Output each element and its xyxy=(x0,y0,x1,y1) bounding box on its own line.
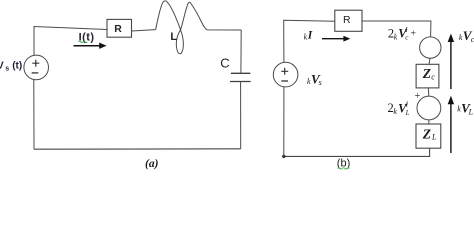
green squiggle under I( xyxy=(79,41,88,42)
minus sign xyxy=(281,80,288,82)
svg-text:(t): (t) xyxy=(12,61,22,72)
wire capacitor to bottom-right corner xyxy=(240,82,242,149)
svg-text:L: L xyxy=(170,31,177,43)
wire R box to top-right corner, down to controlled source 1 xyxy=(362,21,431,37)
svg-text:(a): (a) xyxy=(145,158,159,170)
svg-text:k: k xyxy=(394,32,398,41)
wire R to inductor xyxy=(132,30,156,31)
voltage source kVs circle xyxy=(273,62,298,87)
svg-text:k: k xyxy=(393,107,397,116)
svg-text:+: + xyxy=(415,91,421,102)
svg-text:Z: Z xyxy=(422,127,431,142)
wire source1 to Zc xyxy=(429,58,430,64)
svg-text:+: + xyxy=(410,28,416,39)
capacitor C (plates) xyxy=(231,72,250,74)
impedance ZL box xyxy=(416,124,441,148)
wire top-left corner to R box xyxy=(34,27,107,56)
wire Zc to controlled source 2 xyxy=(427,88,430,96)
svg-text:L: L xyxy=(405,109,410,117)
svg-text:I: I xyxy=(307,29,313,41)
left wire up to source xyxy=(33,80,35,149)
svg-text:C: C xyxy=(220,55,229,70)
wire right side down to capacitor xyxy=(240,30,242,73)
junction dot bottom-left of (b) xyxy=(282,155,285,158)
top-left corner wire to R box xyxy=(284,20,335,62)
wire source2 to ZL xyxy=(428,120,430,124)
resistor R (box) xyxy=(107,19,132,37)
left wire of (b) up to source xyxy=(283,87,285,156)
svg-text:V: V xyxy=(0,61,4,72)
svg-text:Z: Z xyxy=(422,66,431,81)
wire ZL down to bottom wire xyxy=(284,148,430,156)
svg-text:s: s xyxy=(5,65,9,72)
svg-text:s: s xyxy=(319,78,322,87)
arrow kVc (up) xyxy=(450,41,452,89)
svg-text:R: R xyxy=(343,14,351,26)
current arrow I(t) xyxy=(74,45,101,47)
bottom wire of (a) xyxy=(34,148,241,150)
inductor L (hand-drawn coil) xyxy=(156,1,242,54)
minus sign xyxy=(32,72,39,74)
controlled source circle 2 (2kVL^i) xyxy=(417,96,441,120)
svg-text:R: R xyxy=(114,23,122,35)
voltage source Vs(t) circle xyxy=(24,55,49,80)
svg-text:L: L xyxy=(431,132,437,141)
plus sign xyxy=(281,68,288,75)
resistor R box (b) xyxy=(335,10,362,31)
svg-text:c: c xyxy=(431,72,435,81)
current arrow kI xyxy=(322,38,344,40)
svg-text:L: L xyxy=(468,107,474,116)
impedance Zc box xyxy=(416,64,439,88)
green squiggle under (b) xyxy=(338,168,350,169)
plus sign xyxy=(32,60,39,67)
arrow kVL (up) xyxy=(450,103,452,153)
controlled source circle 1 (2kVc^i) xyxy=(420,37,441,58)
